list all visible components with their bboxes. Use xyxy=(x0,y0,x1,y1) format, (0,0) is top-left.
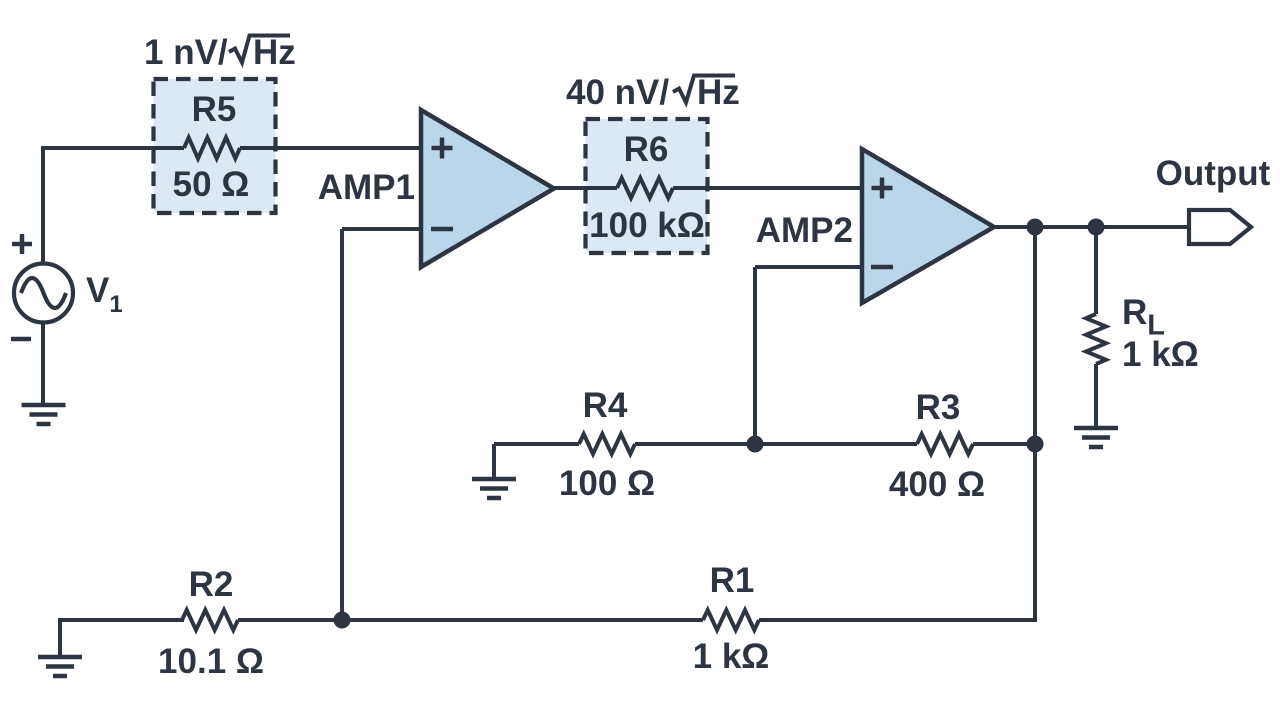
wire node A to R3 xyxy=(755,442,917,446)
svg-text:400 Ω: 400 Ω xyxy=(889,465,985,504)
wire R4 ground stub xyxy=(492,444,496,479)
svg-text:10.1 Ω: 10.1 Ω xyxy=(158,642,264,681)
wire V1 top to R5 and AMP1 + input xyxy=(43,146,184,150)
svg-text:AMP1: AMP1 xyxy=(318,168,415,207)
source V1 plus sign xyxy=(12,234,32,254)
resistor R5 zigzag xyxy=(184,138,240,159)
svg-text:R3: R3 xyxy=(916,388,961,427)
wire output node down to R3 node xyxy=(1033,227,1037,444)
resistor RL zigzag xyxy=(1086,314,1106,364)
wire R2 ground stub xyxy=(58,620,62,657)
svg-text:1 kΩ: 1 kΩ xyxy=(1122,335,1199,374)
op-amp AMP1 minus input mark xyxy=(431,227,453,232)
op-amp AMP2 plus input mark xyxy=(872,178,893,199)
ground left of R2 xyxy=(38,657,82,676)
svg-text:R1: R1 xyxy=(710,561,755,600)
svg-text:Hz: Hz xyxy=(253,33,296,72)
wire R1 to corner xyxy=(759,618,1037,622)
wire RL bottom to ground xyxy=(1094,364,1098,428)
wire V1 bottom to ground xyxy=(41,323,45,405)
wire AMP2 - input vertical xyxy=(753,267,757,444)
svg-text:1 kΩ: 1 kΩ xyxy=(693,637,770,676)
wire AMP2 output to output port xyxy=(994,225,1189,229)
op-amp AMP1 plus input mark xyxy=(432,138,453,159)
source V1 minus sign xyxy=(11,337,31,342)
resistor R4 zigzag xyxy=(579,434,635,454)
ground below V1 xyxy=(22,405,66,424)
noise source box around R6 xyxy=(586,119,708,253)
output junction dot 1 xyxy=(1027,219,1044,236)
resistor R6 zigzag xyxy=(617,178,673,198)
svg-text:Hz: Hz xyxy=(697,73,740,112)
wire R3 to node B xyxy=(973,442,1035,446)
resistor R1 zigzag xyxy=(703,610,759,630)
wire V1 vertical top xyxy=(41,146,45,263)
svg-text:100 kΩ: 100 kΩ xyxy=(589,206,705,245)
ground below RL xyxy=(1074,428,1118,447)
wire AMP1 output to R6 xyxy=(554,186,617,190)
svg-text:100 Ω: 100 Ω xyxy=(559,464,655,503)
wire R6 to AMP2 + input xyxy=(673,186,862,190)
svg-text:50 Ω: 50 Ω xyxy=(173,165,250,204)
source V1 circle xyxy=(14,264,73,323)
svg-text:40 nV/: 40 nV/ xyxy=(566,73,669,112)
wire node C to R1 xyxy=(342,618,703,622)
wire AMP2 - input horizontal xyxy=(755,265,862,269)
noise source box around R5 xyxy=(154,79,276,213)
svg-text:R6: R6 xyxy=(624,130,669,169)
node A junction dot (R4/R3/AMP2 inverting) xyxy=(747,436,764,453)
op-amp AMP2 minus input mark xyxy=(871,265,893,270)
resistor R3 zigzag xyxy=(917,434,973,454)
node B junction dot (R3/R1/output) xyxy=(1027,436,1044,453)
wire AMP1 - input feedback vertical xyxy=(340,229,344,620)
svg-text:R5: R5 xyxy=(192,90,237,129)
op-amp AMP2 triangle xyxy=(862,149,994,303)
wire RL top xyxy=(1094,227,1098,314)
wire R3 node down to R1 xyxy=(1033,444,1037,622)
ground below R4 stub xyxy=(472,479,516,498)
svg-text:R2: R2 xyxy=(189,565,234,604)
svg-text:Output: Output xyxy=(1156,154,1271,193)
output junction dot 2 (RL tap) xyxy=(1088,219,1105,236)
wire R4 to node A xyxy=(635,442,755,446)
svg-text:AMP2: AMP2 xyxy=(756,211,853,250)
wire AMP1 - input feedback horizontal xyxy=(342,227,421,231)
op-amp AMP1 triangle xyxy=(421,110,554,267)
resistor R2 zigzag xyxy=(182,610,238,630)
output port symbol xyxy=(1189,210,1251,244)
svg-text:R4: R4 xyxy=(583,386,628,425)
node C junction dot (R2/R1/AMP1 feedback) xyxy=(334,612,351,629)
wire R2 to node C xyxy=(238,618,342,622)
svg-text:1 nV/: 1 nV/ xyxy=(144,33,228,72)
source V1 sine wave xyxy=(21,278,66,308)
